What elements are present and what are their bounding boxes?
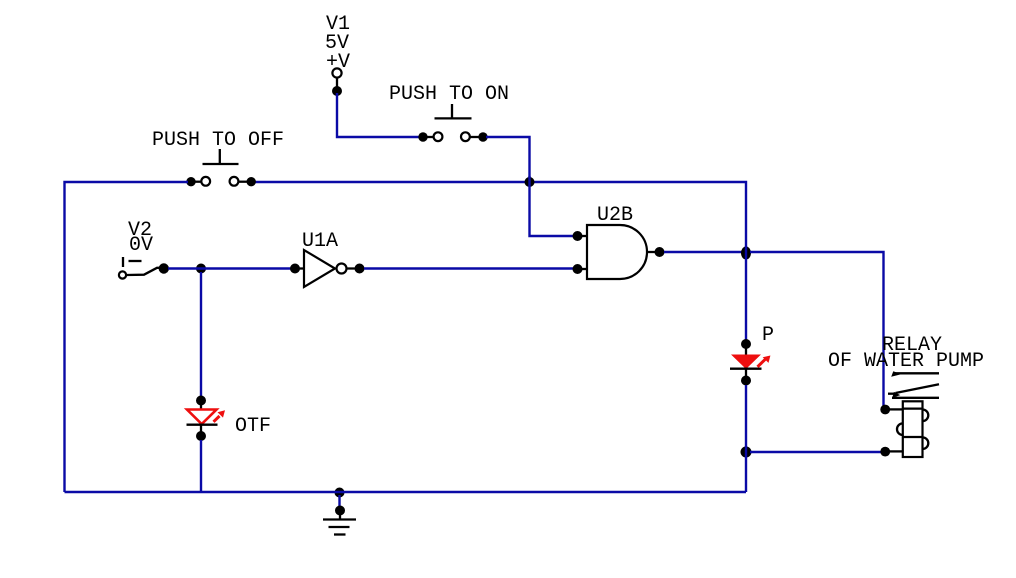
svg-text:PUSH TO OFF: PUSH TO OFF bbox=[152, 129, 284, 152]
relay K1 coil bbox=[888, 401, 928, 457]
wire node A to U2B input 1 bbox=[530, 176, 575, 236]
terminal +V bbox=[332, 68, 341, 88]
node relay coil pin dots bbox=[880, 405, 890, 457]
junction ground node bbox=[335, 488, 345, 498]
wire V2 to U1A input bbox=[168, 267, 293, 269]
wire node C to LED P bbox=[745, 246, 747, 341]
node U1A output dot bbox=[355, 264, 365, 274]
relay K1 contact movable blade bbox=[888, 384, 939, 398]
wire node C to relay coil top bbox=[750, 252, 884, 406]
ground bbox=[323, 506, 356, 535]
and-gate U2B bbox=[587, 225, 656, 279]
wire U1A to U2B input 2 bbox=[364, 267, 574, 269]
switch S1 PUSH TO OFF bbox=[186, 149, 256, 186]
wire node D to bottom rail bbox=[745, 446, 747, 492]
svg-text:PUSH TO ON: PUSH TO ON bbox=[389, 83, 509, 106]
wire LED P to node D bbox=[745, 385, 747, 448]
junction node D bbox=[741, 447, 752, 458]
svg-text:0V: 0V bbox=[129, 234, 153, 257]
source V2 interactive switch bbox=[119, 257, 161, 279]
wire push-to-on to node A bbox=[486, 137, 530, 180]
wire node D to relay coil bottom bbox=[750, 451, 881, 453]
node U1A input dot bbox=[290, 264, 304, 274]
switch S2 PUSH TO ON bbox=[418, 104, 487, 142]
svg-text:OTF: OTF bbox=[235, 415, 271, 438]
node U2B output dot bbox=[655, 247, 665, 257]
node V2 output dot bbox=[159, 263, 169, 273]
wire ground stub bbox=[338, 495, 340, 508]
LED OTF bbox=[187, 396, 226, 442]
junction node B bbox=[196, 264, 206, 274]
svg-text:U2B: U2B bbox=[597, 204, 633, 227]
relay K1 contact fixed bbox=[891, 371, 939, 376]
svg-text:P: P bbox=[762, 324, 774, 347]
junction node A bbox=[525, 177, 535, 187]
svg-text:OF WATER PUMP: OF WATER PUMP bbox=[828, 350, 984, 373]
wire top rail bbox=[255, 182, 746, 248]
wire +V to push-to-on bbox=[337, 93, 421, 137]
node +V pin dot bbox=[332, 86, 342, 96]
junction node C bbox=[741, 247, 751, 260]
node U2B input dots bbox=[573, 231, 588, 274]
wire node B to LED OTF bbox=[200, 272, 202, 397]
svg-text:U1A: U1A bbox=[302, 230, 338, 253]
wire left rail bbox=[65, 182, 189, 492]
wire U2B output to node C bbox=[664, 251, 742, 253]
LED P bbox=[730, 339, 770, 386]
inverter U1A bbox=[304, 250, 357, 287]
wire bottom rail bbox=[65, 491, 747, 493]
wire LED OTF to bottom rail bbox=[200, 440, 202, 492]
